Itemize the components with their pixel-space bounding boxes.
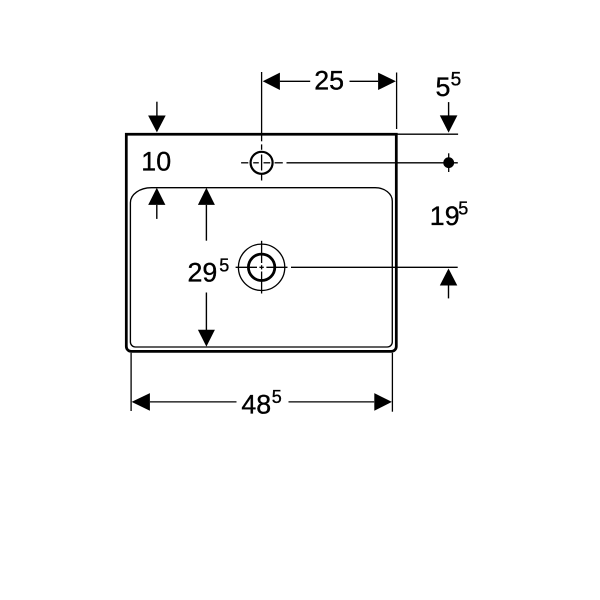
basin top edge extension line (right): [397, 133, 459, 135]
svg-text:5: 5: [436, 72, 451, 102]
drain horizontal centerline: [236, 266, 257, 268]
svg-text:25: 25: [314, 65, 344, 95]
dimension 29.5: up arrow at bowl top: [198, 188, 215, 205]
svg-text:10: 10: [141, 147, 171, 177]
drain outer circle: [238, 244, 284, 290]
dimension 48.5: left arrowhead: [132, 393, 150, 411]
dimension 48.5: right extension line: [391, 353, 393, 412]
inner bowl outline: [130, 188, 392, 347]
faucet height reference dot tick: [448, 153, 450, 172]
dimension 48.5: right arrowhead: [374, 393, 392, 411]
drain vertical centerline: [261, 241, 263, 263]
faucet height reference dot: [443, 157, 454, 168]
dimension 19.5: up arrow at drain centerline: [440, 269, 458, 286]
svg-text:5: 5: [451, 69, 462, 90]
dimension 48.5: dimension line: [150, 401, 237, 403]
dimension 25: right arrowhead: [378, 73, 396, 90]
dimension 48.5: left extension line: [130, 353, 132, 411]
svg-text:5: 5: [458, 199, 468, 219]
faucet hole circle: [251, 152, 273, 174]
faucet horizontal centerline: [241, 162, 248, 164]
svg-text:48: 48: [241, 389, 271, 419]
basin outer outline: [126, 134, 396, 351]
dimension 25: left arrowhead: [263, 73, 280, 90]
dimension 10: down arrow above top edge: [156, 102, 158, 116]
dimension 29.5: down arrow at basin bottom: [205, 293, 207, 331]
drain inner circle: [248, 254, 274, 280]
dimension 10: up arrow below bowl edge: [148, 188, 165, 205]
faucet vertical centerline / 25-dim extension line: [261, 72, 263, 141]
svg-text:5: 5: [219, 256, 229, 276]
svg-text:29: 29: [188, 258, 218, 288]
dimension 25: dimension line: [280, 80, 310, 82]
svg-text:5: 5: [272, 387, 282, 407]
dimension 25: right extension line: [396, 73, 398, 130]
svg-text:19: 19: [430, 201, 460, 231]
dimension 5.5: down arrow: [448, 102, 450, 116]
